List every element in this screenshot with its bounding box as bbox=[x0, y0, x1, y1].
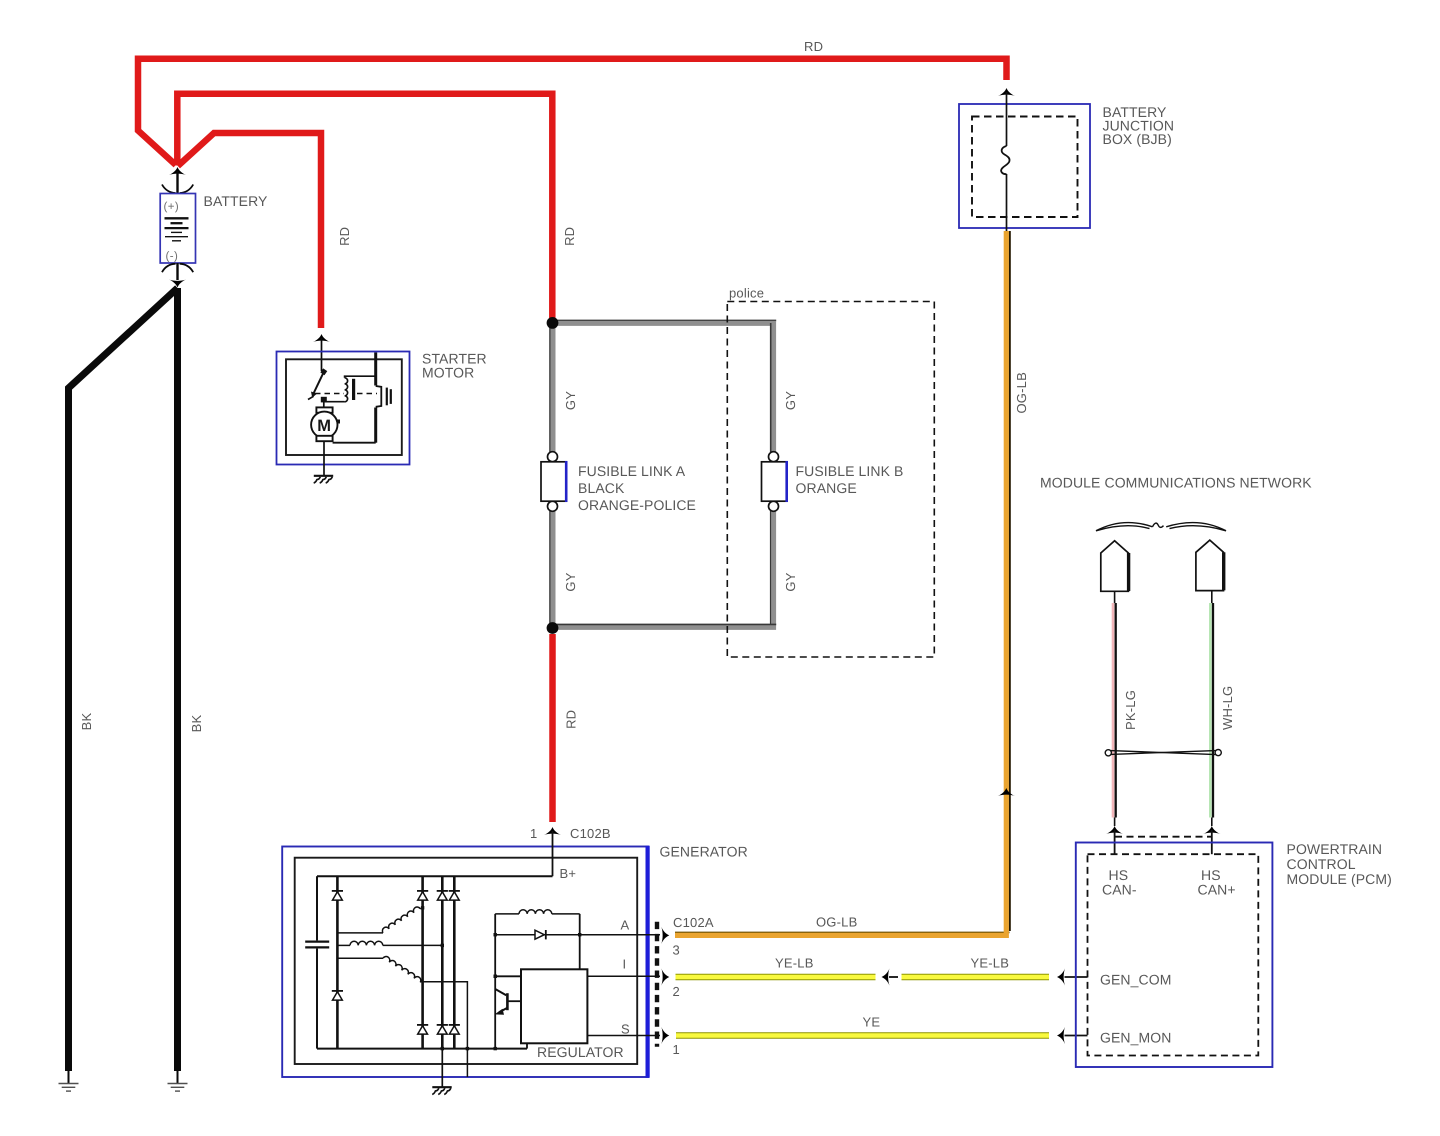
wire starter motor feed stem bbox=[321, 338, 323, 371]
arrow generator pin 3 (A) bbox=[661, 927, 669, 944]
svg-text:CAN-: CAN- bbox=[1102, 882, 1137, 898]
wire YE-LB generator I terminal segment 1 bbox=[676, 974, 876, 980]
wire YE-LB segment 2 to PCM GEN_COM bbox=[902, 974, 1050, 980]
arrow connector at PCM GEN_COM with lead bbox=[1057, 968, 1088, 985]
svg-text:MODULE (PCM): MODULE (PCM) bbox=[1287, 871, 1392, 887]
rectifier leg 3 with diodes bbox=[437, 876, 448, 1048]
arrow into PCM HS CAN- bbox=[1106, 826, 1123, 854]
powertrain control module PCM box bbox=[1076, 843, 1273, 1068]
svg-text:C102A: C102A bbox=[673, 915, 714, 930]
wire BK battery negative to ground G2 (right) bbox=[174, 288, 181, 1071]
svg-text:3: 3 bbox=[673, 943, 680, 958]
arrow into battery positive bbox=[169, 167, 186, 175]
generator left branch with capacitor C bbox=[305, 876, 329, 1048]
svg-text:RD: RD bbox=[562, 227, 577, 246]
svg-text:OG-LB: OG-LB bbox=[816, 915, 857, 930]
svg-text:POWERTRAIN: POWERTRAIN bbox=[1287, 841, 1383, 857]
battery B1 bbox=[160, 194, 195, 264]
arrow connector at PCM GEN_MON with lead bbox=[1057, 1027, 1088, 1044]
starter solenoid switch blade bbox=[308, 368, 327, 399]
starter motor box bbox=[277, 352, 410, 465]
connector arcs at battery positive bbox=[162, 185, 193, 194]
wire generator case ground stem bbox=[441, 1049, 443, 1087]
wire contact to motor and solenoid coil bbox=[324, 402, 345, 408]
svg-text:GY: GY bbox=[563, 391, 578, 410]
rectifier leg 4 with diodes bbox=[449, 876, 460, 1048]
rectifier leg 2 with diodes bbox=[417, 876, 428, 1048]
svg-text:(-): (-) bbox=[166, 251, 179, 263]
starter switch fixed contact node bbox=[321, 397, 327, 403]
svg-text:RD: RD bbox=[337, 227, 352, 246]
svg-text:RD: RD bbox=[804, 39, 823, 54]
svg-text:C102B: C102B bbox=[570, 826, 611, 841]
generator bottom bus bbox=[317, 1048, 527, 1050]
svg-text:BOX (BJB): BOX (BJB) bbox=[1103, 131, 1172, 147]
svg-text:FUSIBLE LINK B: FUSIBLE LINK B bbox=[796, 463, 904, 479]
svg-text:GY: GY bbox=[783, 391, 798, 410]
arrow direction marker on OG-LB wire bbox=[998, 788, 1015, 796]
stator winding phase 2 bbox=[337, 941, 444, 947]
junction node fusible link output (bottom splice) bbox=[547, 622, 559, 634]
svg-text:CAN+: CAN+ bbox=[1198, 882, 1236, 898]
svg-text:GEN_MON: GEN_MON bbox=[1100, 1030, 1172, 1046]
wire I pin lead bbox=[587, 975, 660, 977]
svg-text:(+): (+) bbox=[164, 201, 180, 213]
svg-text:WH-LG: WH-LG bbox=[1220, 686, 1235, 730]
wire GY fusible link B lower lead and bottom jumper bbox=[556, 511, 776, 627]
junction node fusible link feed (top splice) bbox=[547, 317, 559, 329]
wire motor case to terminal bar bbox=[333, 442, 376, 444]
svg-text:GEN_COM: GEN_COM bbox=[1100, 972, 1172, 988]
svg-text:BATTERY: BATTERY bbox=[204, 193, 269, 209]
arrow into PCM HS CAN+ bbox=[1203, 826, 1220, 854]
starter motor terminal bar bbox=[376, 353, 391, 443]
fusible link B bbox=[762, 452, 788, 512]
wire BK battery negative to ground G1 (left) bbox=[69, 288, 178, 1071]
arrow out of battery negative bbox=[169, 280, 186, 288]
svg-text:M: M bbox=[317, 417, 331, 435]
svg-text:MODULE COMMUNICATIONS NETWORK: MODULE COMMUNICATIONS NETWORK bbox=[1040, 475, 1312, 491]
arrow in-line connector on YE-LB bbox=[882, 968, 899, 985]
wire battery negative stem bbox=[176, 263, 178, 280]
svg-text:REGULATOR: REGULATOR bbox=[537, 1044, 624, 1060]
svg-text:BK: BK bbox=[189, 715, 204, 733]
svg-text:YE: YE bbox=[863, 1015, 881, 1030]
regulator box bbox=[521, 969, 587, 1043]
wire GY fusible link A lower lead bbox=[550, 511, 553, 624]
svg-text:BK: BK bbox=[79, 713, 94, 731]
svg-text:YE-LB: YE-LB bbox=[775, 956, 814, 971]
arrow generator pin 2 (I) bbox=[661, 968, 669, 985]
svg-text:OG-LB: OG-LB bbox=[1014, 372, 1029, 413]
arrow generator pin 1 (S) bbox=[661, 1027, 669, 1044]
svg-text:ORANGE-POLICE: ORANGE-POLICE bbox=[578, 497, 696, 513]
connector pin HS CAN- (network side) bbox=[1101, 541, 1129, 592]
svg-text:GY: GY bbox=[783, 572, 798, 591]
starter motor M bbox=[311, 407, 340, 441]
wire RD battery to fusible link feed bbox=[177, 94, 552, 320]
battery junction box (BJB) bbox=[959, 104, 1090, 228]
fusible link A bbox=[541, 452, 567, 512]
wire RD battery positive to battery junction box (top run) bbox=[138, 59, 1007, 165]
connector pin HS CAN+ (network side) bbox=[1196, 540, 1224, 591]
wire regulator to bottom bus bbox=[526, 1043, 528, 1048]
fuse element inside BJB bbox=[1001, 92, 1009, 231]
svg-text:PK-LG: PK-LG bbox=[1123, 690, 1138, 730]
field winding circuit bbox=[494, 910, 582, 1051]
svg-text:YE-LB: YE-LB bbox=[971, 956, 1010, 971]
transistor Q1 bbox=[494, 975, 522, 1015]
field flyback diode bbox=[495, 930, 660, 939]
connector C102A dashed line bbox=[655, 922, 659, 1047]
svg-text:ORANGE: ORANGE bbox=[796, 480, 857, 496]
police option dashed box bbox=[727, 302, 934, 658]
svg-text:BLACK: BLACK bbox=[578, 480, 625, 496]
wire GY fusible link A upper lead bbox=[550, 325, 553, 452]
svg-text:GENERATOR: GENERATOR bbox=[660, 844, 748, 860]
arrow into battery junction box bbox=[998, 88, 1015, 96]
arrow into generator C102B bbox=[544, 827, 561, 835]
wire YE generator S terminal to PCM GEN_MON bbox=[676, 1032, 1049, 1038]
svg-text:2: 2 bbox=[673, 984, 680, 999]
twisted pair marker bbox=[1105, 750, 1221, 756]
generator box bbox=[282, 846, 648, 1078]
junction node ground stem bbox=[441, 1047, 444, 1050]
svg-text:S: S bbox=[621, 1022, 630, 1037]
ground G2 (right battery ground) bbox=[168, 1069, 188, 1091]
stator winding phase 3 bbox=[337, 955, 469, 1077]
svg-text:RD: RD bbox=[564, 710, 579, 729]
wire WH-LG HS CAN+ bbox=[1210, 591, 1213, 826]
wire starter motor to ground bbox=[323, 441, 325, 475]
wire B+ lead into generator bbox=[552, 831, 554, 876]
ground G4 (generator) bbox=[432, 1087, 452, 1094]
svg-text:GY: GY bbox=[563, 572, 578, 591]
svg-text:A: A bbox=[621, 918, 630, 933]
wire RD fusible link output to generator C102B bbox=[549, 634, 556, 822]
svg-text:police: police bbox=[729, 286, 764, 301]
network bus continuation wings bbox=[1096, 523, 1226, 531]
wire OG-LB battery junction box to generator A terminal bbox=[675, 231, 1010, 935]
svg-text:I: I bbox=[623, 957, 627, 972]
svg-text:MOTOR: MOTOR bbox=[422, 365, 474, 381]
connector arcs at battery negative bbox=[162, 264, 193, 273]
wire RD battery to starter motor bbox=[178, 133, 321, 328]
svg-text:CONTROL: CONTROL bbox=[1287, 856, 1356, 872]
wire S pin lead bbox=[587, 1035, 660, 1037]
svg-text:1: 1 bbox=[530, 826, 537, 841]
wire GY top jumper to fusible link B bbox=[556, 320, 776, 452]
mechanical link dashed (solenoid to contacts) bbox=[315, 393, 377, 395]
generator B+ bus bbox=[317, 875, 553, 877]
svg-text:B+: B+ bbox=[560, 866, 577, 881]
wire PK-LG HS CAN- bbox=[1113, 591, 1116, 826]
rectifier leg 1 with diodes bbox=[332, 876, 343, 1048]
starter solenoid pull-in coil bbox=[345, 376, 376, 402]
dashed link between CAN entries bbox=[1115, 836, 1211, 838]
arrow into starter motor bbox=[313, 334, 330, 342]
ground G1 (left battery ground) bbox=[59, 1069, 79, 1091]
svg-text:1: 1 bbox=[673, 1042, 680, 1057]
ground G3 (starter motor) bbox=[314, 476, 334, 483]
svg-text:FUSIBLE LINK A: FUSIBLE LINK A bbox=[578, 463, 686, 479]
stator winding phase 1 bbox=[337, 906, 424, 933]
wire battery positive stem bbox=[176, 171, 178, 194]
